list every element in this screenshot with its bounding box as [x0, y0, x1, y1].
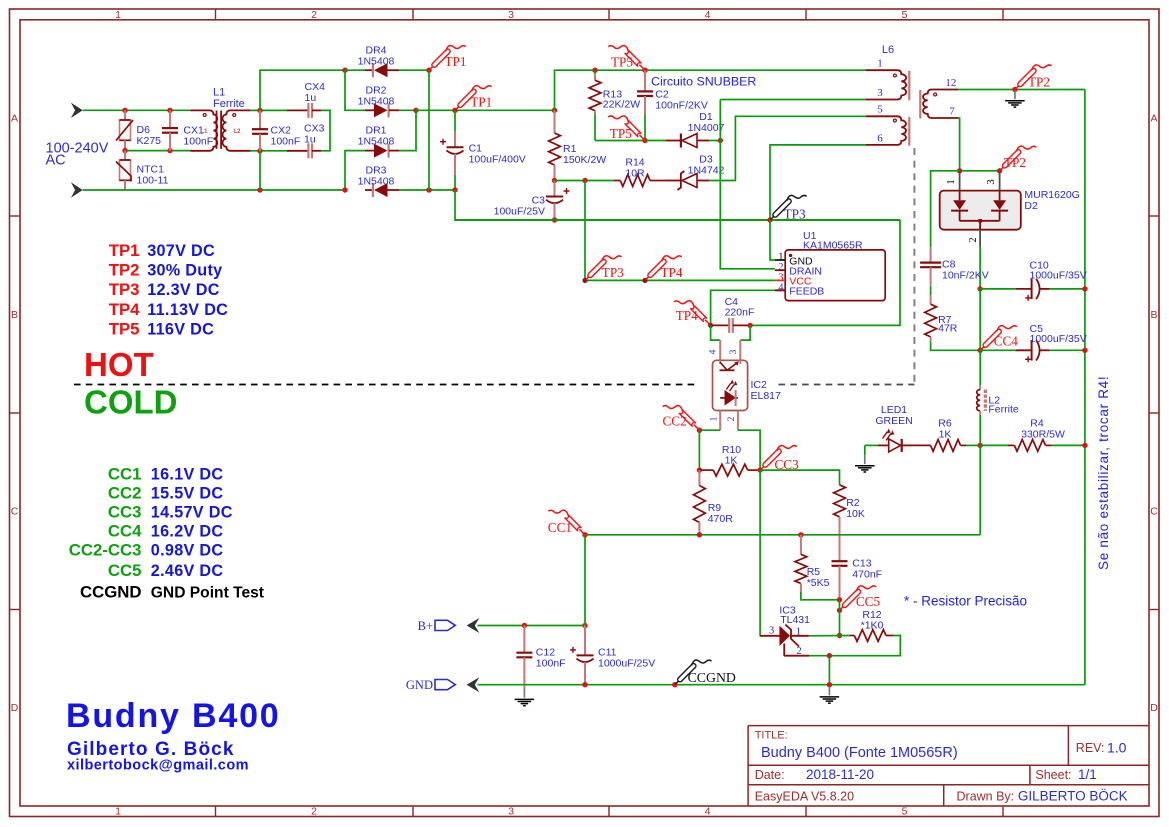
capacitor C10 1000uF/35V: [980, 288, 1016, 290]
op-amp U1 KA1M0565R box: [785, 250, 885, 301]
junction D2 pin3: [997, 168, 1002, 173]
wire bridge left column: [345, 70, 365, 110]
wire B+ row: [478, 625, 586, 627]
svg-text:16.1V DC: 16.1V DC: [151, 466, 224, 484]
svg-text:1N5408: 1N5408: [358, 136, 395, 148]
diode D1 1N4007: [666, 140, 681, 142]
svg-text:TITLE:: TITLE:: [755, 730, 788, 742]
probe CC2: [694, 425, 699, 430]
junction TP3 vcc: [582, 278, 587, 283]
svg-text:1/1: 1/1: [1078, 767, 1097, 782]
svg-text:D2: D2: [1024, 200, 1038, 212]
svg-text:5: 5: [902, 9, 908, 21]
capacitor CX4 1u: [287, 109, 308, 111]
svg-text:1: 1: [115, 806, 121, 818]
svg-text:TP1: TP1: [445, 54, 467, 69]
title block frame: [748, 725, 1149, 727]
probe TP3 red: [586, 275, 591, 280]
junction C12 top: [522, 623, 527, 628]
wire pin12 row: [958, 89, 1085, 91]
svg-text:CC5: CC5: [108, 561, 142, 580]
svg-text:TP3: TP3: [109, 280, 140, 299]
svg-text:1K: 1K: [725, 455, 738, 467]
probe CC4: [981, 345, 986, 350]
svg-text:L1: L1: [201, 129, 209, 135]
svg-text:4: 4: [778, 282, 784, 293]
probe TP5 top: [639, 65, 644, 70]
svg-text:1N5408: 1N5408: [358, 176, 395, 188]
svg-text:1N4007: 1N4007: [688, 122, 725, 134]
svg-text:L6: L6: [882, 44, 894, 56]
svg-text:47R: 47R: [938, 323, 958, 335]
probe CCGND: [675, 679, 680, 684]
capacitor C3 100uF/25V: [554, 181, 556, 197]
svg-text:470R: 470R: [708, 513, 734, 525]
varistor D6 K275: [124, 110, 126, 120]
capacitor CX1 100nF: [169, 110, 171, 128]
junction C3 bottom: [552, 217, 557, 222]
svg-text:100nF/2KV: 100nF/2KV: [655, 100, 708, 112]
svg-text:CC4: CC4: [994, 333, 1019, 348]
wire drain column: [720, 100, 775, 269]
svg-text:1u: 1u: [305, 92, 317, 104]
wire U1 pin2 stub: [775, 269, 785, 271]
resistor R14 10R: [614, 180, 620, 182]
svg-text:A: A: [1150, 113, 1157, 125]
svg-text:3: 3: [508, 9, 514, 21]
svg-text:C: C: [11, 506, 19, 518]
svg-text:Ferrite: Ferrite: [988, 403, 1018, 415]
svg-text:10nF/2KV: 10nF/2KV: [942, 269, 989, 281]
junction TP4 vcc: [642, 278, 647, 283]
diode DR4 1N5408: [365, 69, 373, 71]
svg-text:4: 4: [705, 9, 711, 21]
junction drain node: [718, 138, 723, 143]
input arrow top: [71, 103, 83, 118]
probe TP2 diode: [1000, 165, 1005, 170]
svg-text:1000uF/35V: 1000uF/35V: [1030, 333, 1087, 345]
IC2 led: [720, 397, 738, 399]
junction R1 bottom: [552, 178, 557, 183]
svg-text:AC: AC: [46, 153, 66, 169]
svg-text:CC2: CC2: [108, 484, 142, 503]
svg-text:*1K0: *1K0: [861, 620, 884, 632]
junction R1 top: [552, 108, 557, 113]
svg-text:TP1: TP1: [470, 95, 492, 110]
junction R9 bottom: [697, 532, 702, 537]
svg-text:TP5: TP5: [610, 126, 632, 141]
capacitor C11 1000uF/25V: [584, 626, 586, 656]
svg-text:7: 7: [949, 106, 955, 118]
svg-text:CC3: CC3: [108, 503, 142, 522]
junction DR3 left: [342, 187, 347, 192]
probe CC3: [761, 465, 766, 470]
wire IC2 pin2 path: [737, 411, 739, 431]
svg-text:CC1: CC1: [548, 520, 572, 535]
wire VCC rail: [585, 279, 775, 281]
svg-text:3: 3: [508, 806, 514, 818]
svg-text:2: 2: [311, 9, 317, 21]
svg-text:TP4: TP4: [109, 300, 140, 319]
svg-text:GREEN: GREEN: [875, 415, 912, 427]
resistor R5 *5K5: [800, 535, 802, 555]
junction C4 right: [747, 323, 752, 328]
inductor L2 Ferrite: [979, 350, 981, 385]
svg-text:B: B: [1150, 309, 1157, 321]
junction C2 top: [642, 68, 647, 73]
junction TL431 cathode: [837, 633, 842, 638]
svg-text:3: 3: [729, 349, 739, 354]
svg-text:1: 1: [946, 179, 957, 184]
svg-text:GILBERTO BÖCK: GILBERTO BÖCK: [1018, 789, 1128, 804]
wire pin3 row: [720, 99, 866, 101]
svg-text:Drawn By:: Drawn By:: [957, 790, 1015, 804]
port flag GND: [435, 680, 455, 690]
output arrow GND: [467, 677, 480, 692]
svg-text:CC1: CC1: [108, 465, 142, 484]
svg-text:HOT: HOT: [84, 346, 154, 383]
transformer L6 winding 12-7: [923, 90, 958, 119]
svg-text:4: 4: [709, 349, 719, 354]
isolation dashed separator right: [779, 384, 915, 386]
svg-text:xilbertobock@gmail.com: xilbertobock@gmail.com: [67, 758, 249, 774]
wire snubber top: [555, 70, 867, 110]
transformer L6 polarity dot 12: [934, 93, 937, 96]
svg-text:L2: L2: [234, 129, 242, 135]
svg-text:CCGND: CCGND: [80, 582, 142, 601]
D2 pin2 line: [979, 230, 981, 247]
diode DR1 1N5408: [365, 150, 374, 152]
wire D3 to pin5: [709, 116, 866, 180]
wire D2 out column: [979, 289, 981, 350]
ground secondary: [1014, 90, 1016, 99]
probe TP2 top: [1015, 84, 1020, 89]
svg-text:Se não estabilizar, trocar R4!: Se não estabilizar, trocar R4!: [1096, 376, 1111, 570]
svg-text:100uF/25V: 100uF/25V: [494, 206, 545, 218]
svg-text:11.13V DC: 11.13V DC: [147, 301, 228, 319]
transformer L6 polarity dot 1: [893, 74, 896, 77]
wire CX2 down to AC2: [259, 151, 261, 190]
wire AC line2: [83, 189, 345, 191]
transformer L6 core secondary: [919, 90, 921, 119]
junction CC2: [697, 428, 702, 433]
junction D6 bottom: [122, 148, 127, 153]
svg-text:CCGND: CCGND: [688, 670, 736, 685]
svg-text:12.3V DC: 12.3V DC: [147, 281, 220, 299]
junction CC3: [757, 467, 762, 472]
junction C4 left: [708, 323, 713, 328]
diode D3 1N4742: [666, 180, 681, 182]
svg-text:1N5408: 1N5408: [358, 96, 395, 108]
svg-text:0.98V DC: 0.98V DC: [151, 541, 224, 559]
svg-text:100nF: 100nF: [536, 658, 566, 670]
capacitor CX2 100nF: [259, 110, 261, 129]
svg-text:5: 5: [877, 104, 883, 116]
wire TP3 rail: [455, 219, 900, 221]
resistor R4 330R/5W: [1008, 444, 1014, 446]
wire R6 to node: [966, 444, 980, 446]
wire CC1 rail: [585, 534, 980, 536]
svg-text:C: C: [1150, 506, 1158, 518]
svg-text:1.0: 1.0: [1107, 740, 1127, 756]
svg-text:100-11: 100-11: [137, 175, 169, 187]
svg-text:5: 5: [902, 806, 908, 818]
wire DR2 right: [399, 109, 416, 111]
wire pin7 down: [958, 118, 960, 171]
svg-text:1000uF/35V: 1000uF/35V: [1030, 270, 1087, 282]
svg-text:470nF: 470nF: [852, 569, 882, 581]
svg-text:220nF: 220nF: [725, 306, 755, 318]
svg-text:D: D: [1150, 702, 1158, 714]
svg-text:30% Duty: 30% Duty: [147, 262, 222, 280]
svg-text:TP3: TP3: [784, 206, 806, 221]
wire right rail: [1084, 90, 1086, 685]
wire CC3 down to TL431: [759, 470, 761, 636]
thermistor NTC1 100-11: [124, 151, 126, 160]
svg-text:4: 4: [705, 806, 711, 818]
wire rectified rail: [416, 109, 555, 111]
svg-text:10K: 10K: [846, 508, 865, 520]
wire R14 row: [555, 180, 615, 182]
svg-text:EL817: EL817: [751, 390, 782, 402]
junction ref node: [827, 653, 832, 658]
junction VCC branch: [582, 178, 587, 183]
svg-text:EasyEDA V5.8.20: EasyEDA V5.8.20: [755, 790, 854, 804]
svg-text:Circuito SNUBBER: Circuito SNUBBER: [651, 75, 756, 89]
ground TL431: [828, 687, 830, 696]
wire rail to C4: [750, 220, 900, 325]
choke L1 core: [216, 111, 218, 149]
wire CX4 right: [321, 110, 330, 150]
capacitor C2 100nF/2KV: [644, 70, 646, 91]
junction C10 left: [977, 286, 982, 291]
transformer L6 winding 5-6: [866, 116, 906, 145]
svg-text:100uF/400V: 100uF/400V: [469, 154, 526, 166]
svg-text:330R/5W: 330R/5W: [1021, 429, 1065, 441]
D2 pin lines top: [959, 171, 961, 191]
junction D2 pin1: [957, 168, 962, 173]
svg-text:1u: 1u: [304, 134, 316, 146]
svg-text:150K/2W: 150K/2W: [563, 154, 606, 166]
wire IC2 pin3 path: [740, 325, 750, 340]
junction DR3 out: [426, 187, 431, 192]
junction R13 top: [592, 68, 597, 73]
transformer L6 polarity dot 5: [893, 119, 896, 122]
capacitor C1 100uF/400V: [454, 110, 456, 131]
junction CX2 top: [257, 108, 262, 113]
svg-text:116V DC: 116V DC: [147, 320, 214, 338]
capacitor CX3 1u: [287, 150, 308, 152]
svg-text:12: 12: [945, 77, 956, 89]
wire U1 pin3 stub: [775, 279, 785, 281]
probe CC1: [579, 529, 584, 534]
ground C12: [523, 689, 525, 698]
svg-text:Budny B400: Budny B400: [66, 697, 281, 735]
junction CX1 top: [167, 108, 172, 113]
wire CX2 top: [251, 109, 287, 111]
svg-text:3: 3: [986, 179, 997, 184]
D2 diode B: [993, 200, 1006, 210]
svg-text:TP4: TP4: [661, 265, 683, 280]
probe TP5 bottom: [639, 135, 644, 140]
svg-text:KA1M0565R: KA1M0565R: [803, 239, 863, 251]
resistor R7 47R: [930, 286, 932, 295]
capacitor C12 100nF: [523, 626, 525, 653]
svg-text:1: 1: [796, 625, 802, 637]
junction C1 top: [452, 108, 457, 113]
svg-text:TP3: TP3: [602, 265, 624, 280]
D2 diode A: [953, 200, 966, 210]
svg-text:1N5408: 1N5408: [358, 56, 395, 68]
wire C8 top: [931, 171, 960, 248]
junction CC1: [582, 532, 587, 537]
svg-text:1: 1: [115, 9, 121, 21]
port flag B+: [435, 620, 455, 630]
rectifier D2 MUR1620G box: [940, 191, 1021, 230]
probe TP1 top: [430, 65, 435, 70]
svg-text:2: 2: [311, 806, 317, 818]
wire TL431 to R12: [809, 635, 850, 637]
svg-text:1N4742: 1N4742: [688, 165, 725, 177]
transformer L6 winding 1-3: [866, 70, 906, 99]
wire IC2 pin1 path: [719, 411, 721, 431]
probe CC5: [840, 605, 845, 610]
svg-text:TL431: TL431: [780, 614, 810, 626]
svg-text:D: D: [11, 702, 19, 714]
wire CC1 rail up: [979, 445, 981, 534]
svg-text:CC5: CC5: [856, 594, 881, 609]
D2 common cathode: [960, 220, 1000, 222]
wire C1 bottom to rail: [455, 190, 900, 220]
svg-text:6: 6: [877, 133, 883, 145]
capacitor C8 10nF/2KV: [930, 247, 932, 262]
wire snubber bottom: [595, 140, 645, 142]
svg-text:Sheet:: Sheet:: [1035, 768, 1071, 782]
transistor IC3 TL431: [760, 635, 780, 637]
wire DR3 row out: [399, 189, 455, 191]
input arrow bottom: [71, 182, 83, 197]
diode DR3 1N5408: [365, 189, 373, 191]
svg-text:1K: 1K: [939, 429, 952, 441]
svg-text:TP1: TP1: [109, 241, 140, 260]
choke L1 winding A: [190, 110, 217, 150]
svg-text:3: 3: [769, 625, 775, 637]
svg-text:1000uF/25V: 1000uF/25V: [598, 658, 655, 670]
capacitor C4 220nF: [711, 324, 730, 326]
resistor R2 10K: [834, 485, 846, 517]
resistor R6 1K: [913, 444, 931, 446]
wire CC2 down: [698, 430, 700, 470]
wire D2 top row: [960, 170, 1000, 172]
junction U1 gnd: [767, 217, 772, 222]
svg-text:16.2V DC: 16.2V DC: [151, 522, 224, 540]
junction snubber bottom: [642, 138, 647, 143]
svg-text:A: A: [11, 113, 18, 125]
junction C1 bottom: [452, 187, 457, 192]
wire bridge top feed: [260, 70, 345, 110]
junction CX1 bottom: [167, 148, 172, 153]
svg-text:22K/2W: 22K/2W: [603, 99, 640, 111]
wire CC5 column: [839, 600, 841, 636]
wire R12 loop: [809, 636, 900, 656]
svg-text:GND Point Test: GND Point Test: [151, 584, 264, 601]
junction TP1 node top: [426, 68, 431, 73]
svg-text:TP5: TP5: [109, 319, 140, 338]
wire CC1 to B+ column: [584, 535, 586, 626]
wire R5 bottom: [801, 592, 840, 600]
svg-text:CC2-CC3: CC2-CC3: [69, 540, 142, 559]
svg-text:Ferrite: Ferrite: [213, 98, 245, 110]
junction CCGND: [672, 682, 677, 687]
probe TP4 vcc: [646, 275, 651, 280]
svg-text:100nF: 100nF: [271, 136, 301, 148]
wire IC2 pin4 path: [711, 325, 721, 340]
wire DR2-DR1 column: [399, 110, 416, 150]
svg-text:1: 1: [877, 58, 883, 70]
svg-text:2: 2: [778, 262, 783, 273]
resistor R9 470R: [698, 470, 700, 485]
svg-text:3: 3: [877, 87, 883, 99]
svg-text:B: B: [11, 309, 18, 321]
wire TP1 column: [428, 70, 430, 190]
capacitor C5 1000uF/35V: [980, 349, 1015, 351]
wire R4 to rail: [1051, 444, 1085, 446]
wire DR4 row: [345, 69, 365, 71]
junction TP2 gnd: [1012, 87, 1017, 92]
svg-text:2: 2: [968, 237, 979, 242]
svg-text:B+: B+: [418, 619, 433, 633]
svg-text:CC4: CC4: [108, 521, 142, 540]
resistor R12 *1K0: [850, 635, 854, 637]
svg-text:*5K5: *5K5: [807, 577, 830, 589]
junction C13 bottom: [837, 597, 842, 602]
junction R10 left: [697, 467, 702, 472]
junction AC2 CX2 column: [257, 187, 262, 192]
junction R4 rail: [1082, 443, 1087, 448]
junction D6 top: [122, 108, 127, 113]
transformer L6 core primary: [908, 71, 910, 101]
svg-text:2.46V DC: 2.46V DC: [151, 562, 224, 580]
wire pin6 row: [770, 145, 866, 220]
junction gnd TL431: [827, 682, 832, 687]
wire U1 pin4 stub: [775, 289, 785, 291]
svg-text:COLD: COLD: [84, 384, 178, 421]
svg-text:2: 2: [727, 416, 737, 421]
svg-text:TP4: TP4: [676, 308, 698, 323]
ground LED1: [864, 455, 866, 464]
svg-text:GND: GND: [406, 678, 433, 692]
svg-text:1: 1: [710, 416, 720, 421]
svg-text:L1: L1: [213, 87, 225, 99]
optocoupler IC2 EL817 box: [713, 360, 748, 410]
wire R10 to R2: [760, 470, 839, 485]
svg-text:2018-11-20: 2018-11-20: [806, 767, 874, 782]
junction DR4 left: [342, 68, 347, 73]
output arrow B+: [467, 618, 480, 633]
IC2 phototransistor: [719, 360, 721, 364]
isolation dashed separator vertical: [913, 148, 915, 385]
probe TP4 feedb: [705, 320, 710, 325]
resistor R10 1K: [699, 469, 713, 471]
wire GND rail: [478, 684, 1085, 686]
junction L2 bottom: [978, 443, 983, 448]
junction R5 top: [798, 532, 803, 537]
diode DR2 1N5408: [365, 109, 374, 111]
svg-text:FEEDB: FEEDB: [789, 285, 824, 297]
wire FEEDB: [775, 289, 785, 291]
svg-text:14.57V DC: 14.57V DC: [151, 504, 233, 522]
wire DR1 left column: [345, 151, 365, 190]
